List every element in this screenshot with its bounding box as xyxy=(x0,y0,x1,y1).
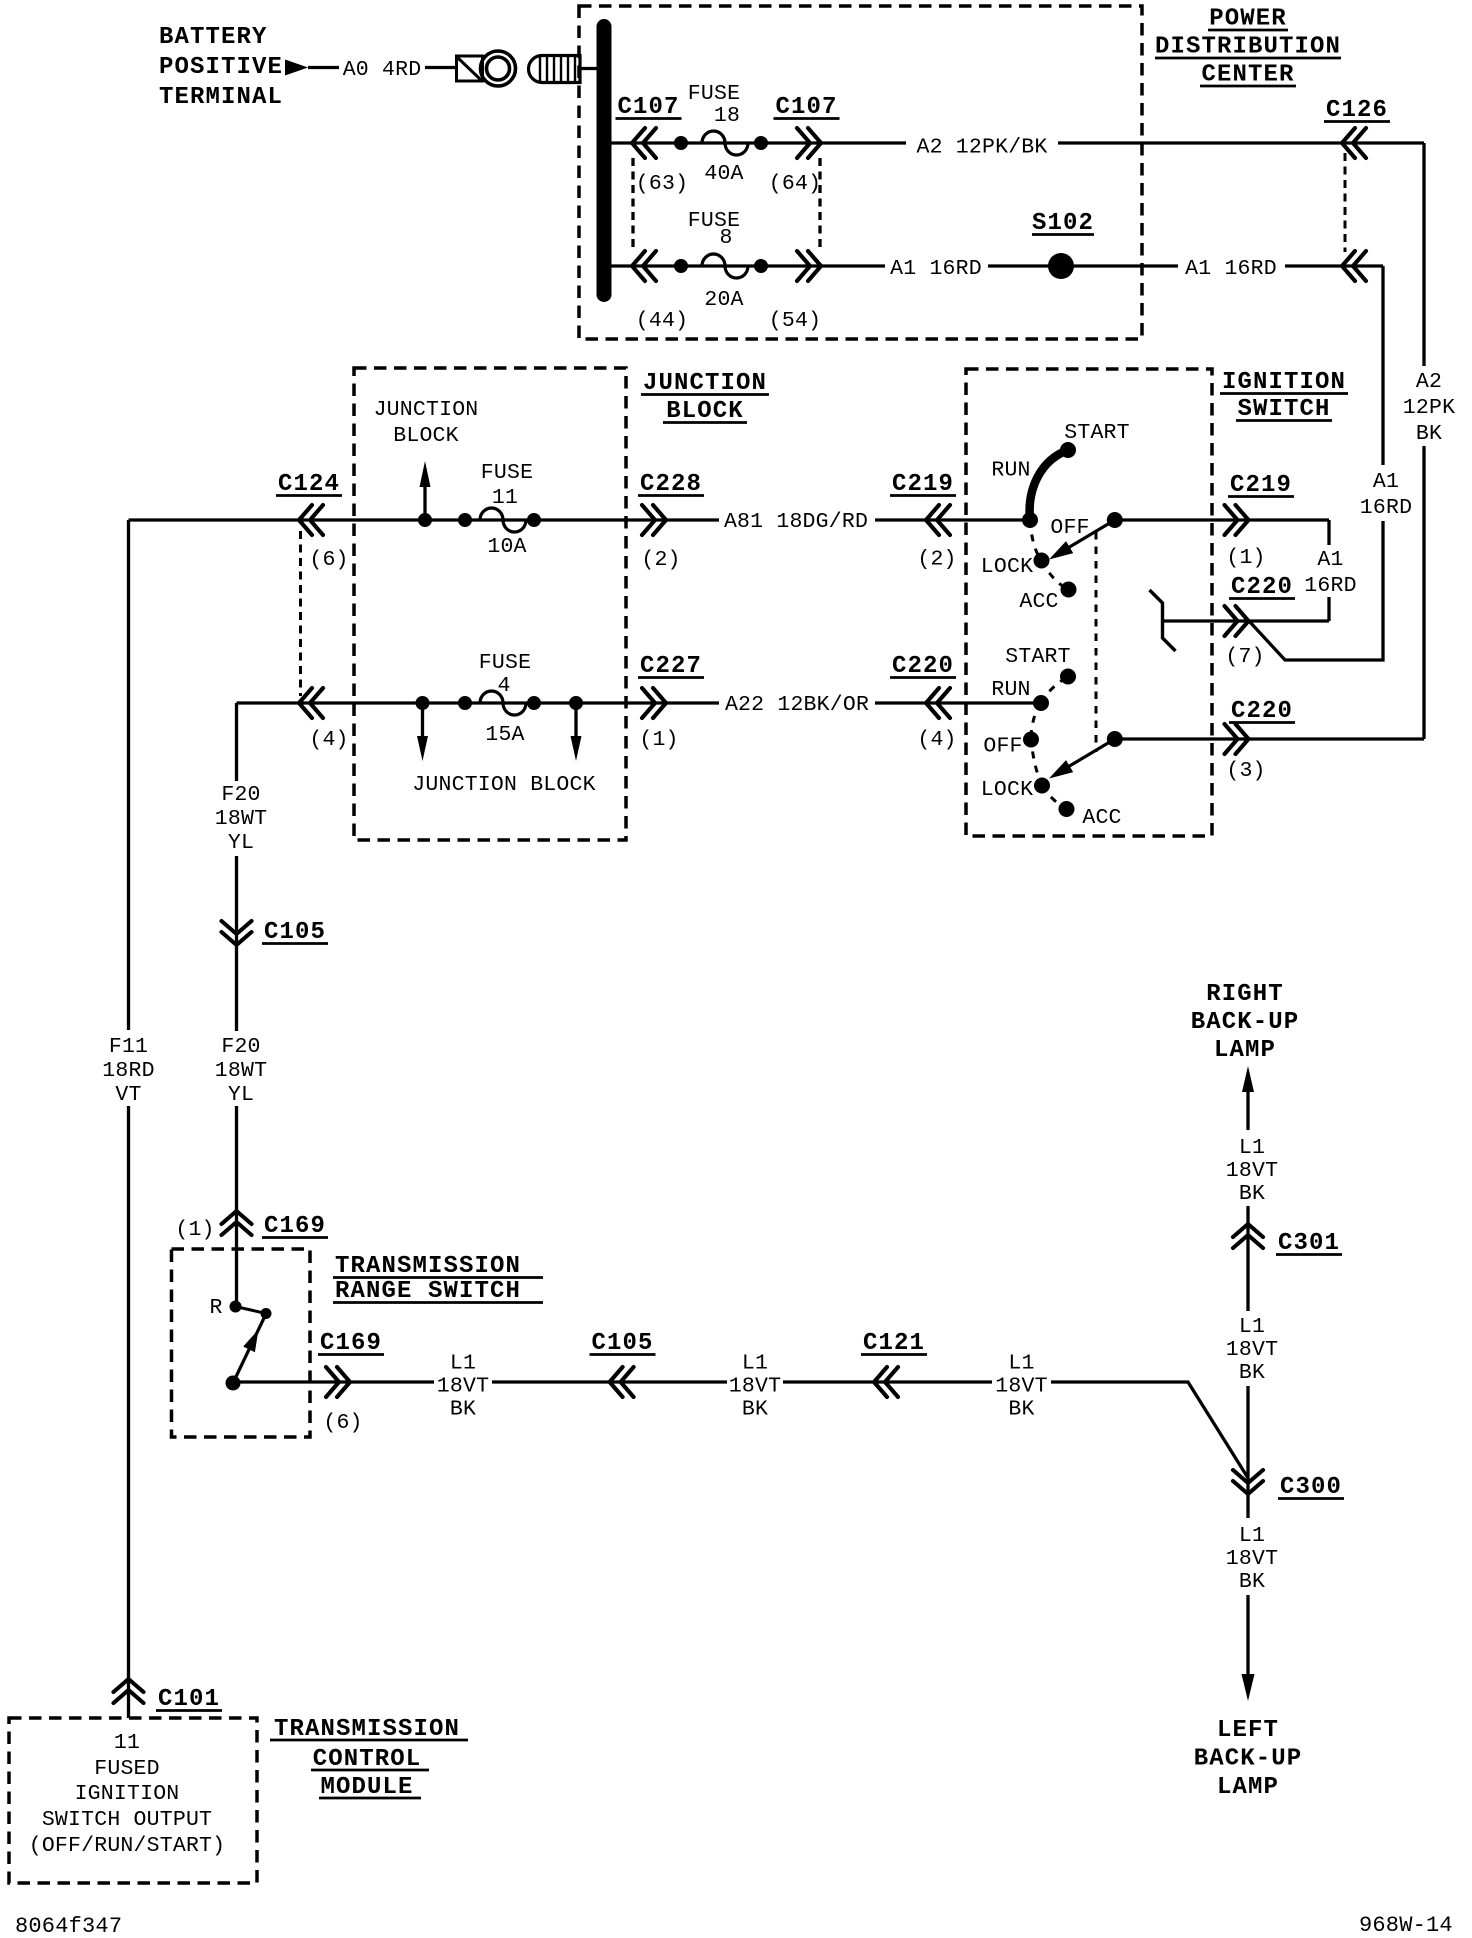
svg-text:18VT: 18VT xyxy=(437,1375,489,1399)
connector C101 xyxy=(114,1679,144,1703)
splice S102 xyxy=(1048,253,1074,279)
svg-text:15A: 15A xyxy=(485,723,524,747)
svg-text:C105: C105 xyxy=(591,1330,653,1357)
ignition switch box xyxy=(966,369,1212,836)
fuse 11 xyxy=(418,513,432,527)
svg-text:C300: C300 xyxy=(1280,1474,1342,1501)
svg-text:BLOCK: BLOCK xyxy=(393,424,459,448)
top switch START contact xyxy=(1060,442,1076,458)
svg-text:(54): (54) xyxy=(769,309,821,333)
svg-text:JUNCTION: JUNCTION xyxy=(374,398,479,422)
svg-text:18WT: 18WT xyxy=(215,807,267,831)
wire F20 18WT YL xyxy=(235,703,238,781)
down arrows to junction block xyxy=(421,703,424,736)
resistive wire symbol xyxy=(1150,590,1176,651)
wire A2 down right side xyxy=(1422,143,1425,366)
svg-text:LAMP: LAMP xyxy=(1214,1037,1276,1064)
bottom switch START contact xyxy=(1060,669,1076,685)
svg-text:8064f347: 8064f347 xyxy=(15,1914,122,1938)
bottom switch LOCK contact xyxy=(1034,778,1050,794)
ring terminal xyxy=(457,56,483,81)
svg-text:A0 4RD: A0 4RD xyxy=(343,58,422,82)
bus bar xyxy=(597,19,612,302)
svg-text:F20: F20 xyxy=(221,783,260,807)
svg-text:START: START xyxy=(1005,645,1071,669)
connector C107 (64) xyxy=(797,128,821,158)
svg-text:RUN: RUN xyxy=(991,678,1030,702)
transmission range switch box xyxy=(172,1249,311,1437)
fuse 8 xyxy=(674,259,688,273)
svg-text:BK: BK xyxy=(1239,1361,1265,1385)
top switch dashed arc xyxy=(1030,520,1042,561)
connector C301 xyxy=(1246,1206,1249,1311)
svg-text:YL: YL xyxy=(228,1083,254,1107)
fuse 4 row wire xyxy=(237,701,720,704)
wire A1 down right side xyxy=(1381,266,1384,465)
svg-text:(3): (3) xyxy=(1226,759,1265,783)
connector C124 (4) xyxy=(299,688,323,718)
svg-text:18WT: 18WT xyxy=(215,1059,267,1083)
svg-text:ACC: ACC xyxy=(1019,590,1058,614)
wiper with arrow xyxy=(233,1318,264,1383)
svg-text:10A: 10A xyxy=(487,535,526,559)
pivot xyxy=(226,1376,241,1391)
svg-text:C301: C301 xyxy=(1278,1230,1340,1257)
svg-text:L1: L1 xyxy=(742,1352,768,1376)
svg-text:BK: BK xyxy=(742,1398,768,1422)
svg-text:A2: A2 xyxy=(1416,370,1442,394)
svg-text:F20: F20 xyxy=(221,1035,260,1059)
svg-text:S102: S102 xyxy=(1032,210,1094,237)
wire F11 18RD VT xyxy=(127,520,130,1030)
svg-text:C121: C121 xyxy=(863,1330,925,1357)
svg-text:C126: C126 xyxy=(1326,97,1388,124)
svg-text:(64): (64) xyxy=(769,172,821,196)
arrow to left lamp xyxy=(1246,1595,1249,1675)
svg-text:(63): (63) xyxy=(636,172,688,196)
svg-text:(2): (2) xyxy=(641,548,680,572)
svg-text:(44): (44) xyxy=(636,309,688,333)
transmission control module box xyxy=(9,1718,257,1883)
svg-text:SWITCH: SWITCH xyxy=(1237,396,1330,423)
svg-text:BATTERY: BATTERY xyxy=(159,24,268,51)
svg-text:LOCK: LOCK xyxy=(981,555,1033,579)
svg-text:(1): (1) xyxy=(1226,546,1265,570)
svg-text:18RD: 18RD xyxy=(102,1059,154,1083)
bottom switch common node xyxy=(1107,731,1123,747)
svg-text:4: 4 xyxy=(497,674,510,698)
svg-text:C124: C124 xyxy=(278,471,340,498)
svg-text:C101: C101 xyxy=(158,1686,220,1713)
svg-text:A1: A1 xyxy=(1317,548,1343,572)
svg-text:OFF: OFF xyxy=(983,735,1022,759)
svg-text:C105: C105 xyxy=(264,919,326,946)
battery arrow xyxy=(285,60,308,76)
svg-text:(1): (1) xyxy=(639,728,678,752)
svg-text:C220: C220 xyxy=(1231,698,1293,725)
svg-text:L1: L1 xyxy=(1008,1352,1034,1376)
bottom switch dashed arcs xyxy=(1041,677,1068,704)
svg-text:11: 11 xyxy=(492,486,518,510)
fuse 18 xyxy=(674,136,688,150)
bottom switch RUN contact / pivot xyxy=(1033,695,1049,711)
top switch LOCK contact xyxy=(1034,553,1050,569)
svg-text:RIGHT: RIGHT xyxy=(1206,981,1284,1008)
wire common to C219 (1) xyxy=(1115,518,1329,521)
svg-text:20A: 20A xyxy=(704,288,743,312)
svg-text:18VT: 18VT xyxy=(729,1375,781,1399)
fuse 4 xyxy=(416,696,430,710)
svg-text:R: R xyxy=(209,1296,222,1320)
svg-text:A81 18DG/RD: A81 18DG/RD xyxy=(724,510,868,534)
svg-text:JUNCTION: JUNCTION xyxy=(643,370,767,397)
svg-text:IGNITION: IGNITION xyxy=(1222,369,1346,396)
svg-text:START: START xyxy=(1064,421,1130,445)
svg-text:FUSE: FUSE xyxy=(481,461,533,485)
svg-text:RANGE SWITCH: RANGE SWITCH xyxy=(335,1278,521,1305)
wire common to C220 (3) xyxy=(1115,737,1424,740)
svg-text:POWER: POWER xyxy=(1209,6,1287,33)
svg-text:(4): (4) xyxy=(917,728,956,752)
svg-text:968W-14: 968W-14 xyxy=(1359,1913,1453,1938)
svg-text:LAMP: LAMP xyxy=(1217,1774,1279,1801)
svg-text:C169: C169 xyxy=(264,1213,326,1240)
svg-text:FUSE: FUSE xyxy=(479,651,531,675)
svg-text:18: 18 xyxy=(714,104,740,128)
bolt xyxy=(529,56,581,83)
svg-text:8: 8 xyxy=(719,226,732,250)
svg-text:TERMINAL: TERMINAL xyxy=(159,84,283,111)
svg-text:(OFF/RUN/START): (OFF/RUN/START) xyxy=(29,1834,226,1858)
svg-text:(6): (6) xyxy=(323,1411,362,1435)
svg-text:L1: L1 xyxy=(1239,1315,1265,1339)
bottom switch wiper arrow xyxy=(1062,739,1115,771)
svg-text:C107: C107 xyxy=(617,94,679,121)
svg-text:L1: L1 xyxy=(450,1352,476,1376)
svg-text:(4): (4) xyxy=(309,728,348,752)
top switch wiper arrow xyxy=(1062,520,1115,552)
svg-text:(1): (1) xyxy=(175,1218,214,1242)
connector C300 xyxy=(1246,1386,1249,1518)
arrow to right lamp xyxy=(1242,1066,1254,1092)
svg-text:CENTER: CENTER xyxy=(1201,62,1294,89)
svg-text:RUN: RUN xyxy=(991,459,1030,483)
connector C105 xyxy=(222,921,252,945)
svg-text:18VT: 18VT xyxy=(1226,1159,1278,1183)
fuse 18 row wire xyxy=(611,141,906,144)
svg-text:F11: F11 xyxy=(109,1035,148,1059)
svg-text:16RD: 16RD xyxy=(1360,496,1412,520)
top switch thick arc to START xyxy=(1030,450,1068,520)
up arrow to junction block xyxy=(423,486,426,520)
svg-text:C228: C228 xyxy=(640,471,702,498)
top switch common node xyxy=(1107,512,1123,528)
svg-text:FUSE: FUSE xyxy=(688,82,740,106)
svg-text:18VT: 18VT xyxy=(995,1375,1047,1399)
svg-text:BK: BK xyxy=(1008,1398,1034,1422)
svg-text:(6): (6) xyxy=(309,548,348,572)
power distribution center box xyxy=(579,6,1142,339)
svg-text:A1: A1 xyxy=(1373,470,1399,494)
svg-text:DISTRIBUTION: DISTRIBUTION xyxy=(1155,34,1341,61)
svg-text:JUNCTION BLOCK: JUNCTION BLOCK xyxy=(412,773,595,797)
svg-text:A1 16RD: A1 16RD xyxy=(1185,257,1277,281)
svg-text:POSITIVE: POSITIVE xyxy=(159,54,283,81)
svg-text:BACK-UP: BACK-UP xyxy=(1191,1009,1300,1036)
svg-text:SWITCH OUTPUT: SWITCH OUTPUT xyxy=(42,1808,212,1832)
svg-text:IGNITION: IGNITION xyxy=(75,1782,180,1806)
wire A1 16RD link xyxy=(1327,520,1330,545)
svg-text:ACC: ACC xyxy=(1082,806,1121,830)
wire to C220 (7) xyxy=(1163,619,1330,622)
svg-text:C220: C220 xyxy=(1231,574,1293,601)
svg-text:LOCK: LOCK xyxy=(981,778,1033,802)
fuse 11 row wire xyxy=(129,518,720,521)
svg-text:BK: BK xyxy=(1416,422,1442,446)
svg-text:LEFT: LEFT xyxy=(1217,1717,1279,1744)
mechanical link dashed xyxy=(1095,532,1098,752)
contact link xyxy=(236,1307,267,1314)
svg-text:A2 12PK/BK: A2 12PK/BK xyxy=(916,136,1047,160)
svg-text:C227: C227 xyxy=(640,653,702,680)
svg-text:(7): (7) xyxy=(1225,645,1264,669)
svg-text:BACK-UP: BACK-UP xyxy=(1194,1746,1303,1773)
wire L1 18VT BK xyxy=(233,1380,434,1383)
top switch pivot xyxy=(1022,512,1038,528)
svg-text:YL: YL xyxy=(228,831,254,855)
svg-text:16RD: 16RD xyxy=(1304,574,1356,598)
svg-text:18VT: 18VT xyxy=(1226,1547,1278,1571)
wire A0 4RD xyxy=(308,66,339,69)
C107 body dashes xyxy=(633,158,820,251)
svg-text:C220: C220 xyxy=(892,653,954,680)
bottom switch OFF contact xyxy=(1023,732,1039,748)
svg-text:40A: 40A xyxy=(704,162,743,186)
svg-text:A22 12BK/OR: A22 12BK/OR xyxy=(725,693,869,717)
connector C107 (63) xyxy=(632,128,656,158)
svg-text:BK: BK xyxy=(450,1398,476,1422)
svg-text:L1: L1 xyxy=(1239,1136,1265,1160)
svg-text:18VT: 18VT xyxy=(1226,1338,1278,1362)
connector C107 (54) xyxy=(797,251,821,281)
top switch ACC contact xyxy=(1061,582,1077,598)
svg-text:A1 16RD: A1 16RD xyxy=(890,257,982,281)
svg-text:BK: BK xyxy=(1239,1570,1265,1594)
svg-text:C107: C107 xyxy=(775,94,837,121)
svg-text:BLOCK: BLOCK xyxy=(666,398,744,425)
svg-text:(2): (2) xyxy=(917,548,956,572)
svg-text:C169: C169 xyxy=(320,1330,382,1357)
svg-text:C219: C219 xyxy=(892,471,954,498)
svg-text:BK: BK xyxy=(1239,1182,1265,1206)
svg-text:VT: VT xyxy=(115,1083,141,1107)
connector C107 (44) xyxy=(632,251,656,281)
bottom switch ACC contact xyxy=(1059,801,1075,817)
svg-text:11: 11 xyxy=(114,1731,140,1755)
fuse 8 row wire xyxy=(611,264,885,267)
svg-text:OFF: OFF xyxy=(1050,516,1089,540)
junction block box xyxy=(354,368,626,840)
svg-text:L1: L1 xyxy=(1239,1524,1265,1548)
svg-text:C219: C219 xyxy=(1230,472,1292,499)
svg-text:FUSED: FUSED xyxy=(94,1757,160,1781)
svg-text:TRANSMISSION: TRANSMISSION xyxy=(335,1253,521,1280)
svg-text:12PK: 12PK xyxy=(1403,396,1455,420)
